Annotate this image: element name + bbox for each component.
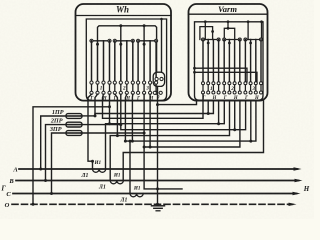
svg-text:Л1: Л1 xyxy=(120,197,128,203)
wire Wh inner frame tap to zero link xyxy=(161,19,163,72)
wire rung phase A voltage to Varm xyxy=(95,100,213,116)
svg-text:А: А xyxy=(12,167,18,174)
junction neutral link at Wh zero wire xyxy=(156,103,159,106)
junction fuse1 input on bus А xyxy=(39,168,42,171)
svg-text:Wh: Wh xyxy=(116,5,129,15)
arrow bus А xyxy=(294,167,302,170)
wire neutral link Wh to Varm xyxy=(158,100,197,104)
Varm element 3 coil group xyxy=(244,38,263,82)
wire rung CT3 И1 to Varm element3 xyxy=(125,100,256,141)
svg-text:Л1: Л1 xyxy=(98,184,106,190)
svg-text:И1: И1 xyxy=(113,172,121,178)
wattmeter Wh outer case xyxy=(76,4,172,101)
svg-text:В: В xyxy=(8,178,14,185)
svg-text:1ПР: 1ПР xyxy=(52,109,64,116)
junction Wh element2 col4 on rung xyxy=(131,140,134,143)
svg-text:2: 2 xyxy=(122,85,126,91)
svg-text:Г: Г xyxy=(0,185,6,193)
wire CT1 И2 to Varm xyxy=(106,100,225,168)
Wh zero link box xyxy=(153,72,164,86)
junction fuse3 output node xyxy=(143,132,146,135)
junction CT1 И1 xyxy=(91,160,94,163)
svg-text:Г: Г xyxy=(136,97,140,102)
wire rung CT2 И2 to Varm right xyxy=(123,100,263,180)
current transformer CT3 secondary winding xyxy=(130,194,143,197)
svg-text:Varm: Varm xyxy=(218,4,237,14)
svg-text:3: 3 xyxy=(251,86,255,92)
junction Varm cross 1 on bar xyxy=(211,30,214,33)
wire fuse1 output xyxy=(81,115,95,117)
svg-text:Н: Н xyxy=(303,185,310,193)
junction Varm drop on rung B xyxy=(207,112,210,115)
svg-text:2ПР: 2ПР xyxy=(50,118,63,125)
Varm element 1 terminals Г Н 1 xyxy=(202,82,221,101)
fuse 1ПР xyxy=(66,114,82,119)
Varm element 2 terminals Г Н 2 xyxy=(223,82,242,101)
wire fuse3 output xyxy=(81,132,144,134)
junction CT2 И1 node xyxy=(116,134,119,137)
wire Varm drop to rung B xyxy=(207,100,209,113)
wire fuse 3ПР input from bus С xyxy=(52,133,67,194)
current transformer CT1 secondary winding xyxy=(93,169,106,172)
wire CT2 И1 to rung xyxy=(110,100,229,180)
wire Varm lower cross connection 1 xyxy=(195,68,248,82)
junction on Wh voltage bus at element 2 xyxy=(119,24,122,27)
svg-text:Л1: Л1 xyxy=(81,173,89,179)
junction Varm drop on rung D xyxy=(217,122,220,125)
fuse 3ПР xyxy=(66,131,82,136)
wire Varm right loop xyxy=(247,22,249,40)
svg-text:1: 1 xyxy=(210,86,213,92)
junction fuse1 output node xyxy=(94,114,97,117)
wire Wh zero link to ground and bus О xyxy=(157,86,159,204)
junction Varm lower cross 2 xyxy=(193,71,196,74)
wire rung Wh element2 to Varm element2 xyxy=(115,94,118,135)
wire rung CT1 И2 return xyxy=(109,94,111,124)
wire Varm drop to rung E xyxy=(234,100,236,130)
Wh zero link terminals xyxy=(155,77,158,80)
svg-text:С: С xyxy=(6,191,11,198)
wire Varm lower cross connection 2 xyxy=(195,72,258,82)
wire Wh voltage bus xyxy=(98,26,157,72)
Wh terminal 0 circles xyxy=(153,91,156,94)
junction Varm top frame taps xyxy=(247,20,250,23)
Varm element 2 coil group xyxy=(223,38,242,82)
junction fuse2 input on bus В xyxy=(44,179,47,182)
svg-text:Н: Н xyxy=(149,97,154,102)
current transformer CT2 secondary winding xyxy=(110,181,123,184)
bus С xyxy=(13,193,297,195)
wire rung phase B voltage to Varm xyxy=(121,94,246,130)
svg-text:И1: И1 xyxy=(93,160,101,166)
Varm element 3 terminals Г Н 3 xyxy=(244,82,263,101)
junction neutral branch at Wh wire xyxy=(108,105,111,108)
Wh element 2 terminals Г Н 2 xyxy=(113,81,135,102)
junction Varm drop on rung G xyxy=(249,140,252,143)
svg-text:3: 3 xyxy=(145,85,149,91)
Wh element 1 terminals Г Н 1 xyxy=(89,81,111,102)
wire Wh element3 col3 drop xyxy=(149,94,151,147)
svg-text:2: 2 xyxy=(230,86,234,92)
Varm inner frame xyxy=(195,22,264,100)
wire Wh bus to element 2 coil xyxy=(120,26,122,41)
varmeter Varm outer case xyxy=(189,4,268,101)
svg-text:Г: Г xyxy=(89,97,93,102)
wire fuse 1ПР input from bus А xyxy=(41,116,66,169)
arrow bus С xyxy=(293,192,301,195)
Wh element 3 coil group xyxy=(137,39,158,81)
junction rung G left xyxy=(124,140,127,143)
junction Varm frame tap 1 xyxy=(204,20,207,23)
wire neutral branch to bus О xyxy=(33,107,110,205)
wire Varm cross connection 2 xyxy=(224,28,234,39)
junction zero wire on CT3 return xyxy=(156,187,159,190)
svg-text:Н: Н xyxy=(212,96,217,101)
junction Wh frame tap xyxy=(160,18,163,21)
junction CT3 return at rung xyxy=(143,146,146,149)
junction zero wire on bus О xyxy=(156,203,159,206)
bus О dashed xyxy=(12,203,293,205)
wire Varm frame tap element 1 xyxy=(204,22,206,40)
wire Wh element1 Г to CT1 И1 xyxy=(88,94,93,161)
Wh case separator line xyxy=(76,15,172,17)
junction fuse3 input on bus С xyxy=(50,192,53,195)
junction CT3 И1 node xyxy=(129,140,132,143)
Wh element 1 coil group xyxy=(90,39,111,81)
wire CT1 И1 lead xyxy=(92,161,94,168)
wire Varm frame tap element 2 xyxy=(227,22,229,29)
svg-text:О: О xyxy=(5,202,10,209)
svg-text:Г: Г xyxy=(113,97,117,102)
junction on Wh voltage bus at element 3 xyxy=(143,24,146,27)
wire Varm drop to rung D xyxy=(218,100,220,124)
wire Varm drop to rung G xyxy=(250,100,252,141)
Varm element 1 coil group xyxy=(202,38,221,82)
Wh element 2 coil group xyxy=(113,39,134,81)
wire rung Wh element1 to Varm element1 xyxy=(103,94,204,118)
arrow bus В xyxy=(295,179,303,182)
svg-text:1: 1 xyxy=(100,85,103,91)
wire Wh bus to element 3 coil xyxy=(143,26,145,41)
wire fuse 2ПР input from bus В xyxy=(46,125,67,181)
junction Varm frame tap 2 xyxy=(227,20,230,23)
junction neutral branch on bus О xyxy=(32,203,35,206)
Wh element 3 terminals Г Н 3 xyxy=(136,81,158,102)
fuse 2ПР xyxy=(66,122,82,127)
wire Wh element2 col4 drop xyxy=(131,94,133,141)
wire rung phase C voltage xyxy=(144,94,240,147)
junction Varm lower cross 1 xyxy=(193,67,196,70)
bus В xyxy=(16,180,299,182)
junction Wh element3 col3 on rung xyxy=(149,146,152,149)
junction Varm drop on rung E xyxy=(233,128,236,131)
wire fuse2 output xyxy=(81,124,121,126)
Varm case separator line xyxy=(189,13,268,15)
arrow bus О xyxy=(289,203,297,206)
wire CT3 И1 lead xyxy=(129,141,131,192)
wire Wh element1 voltage drop xyxy=(95,94,98,116)
Wh inner frame xyxy=(86,19,166,101)
junction fuse2 output node xyxy=(119,123,122,126)
bus А xyxy=(19,168,298,170)
wire Varm cross connection 1 xyxy=(200,27,213,40)
svg-text:И1: И1 xyxy=(133,185,141,191)
wire rung Wh element2 Н return xyxy=(125,94,126,141)
svg-text:3ПР: 3ПР xyxy=(49,126,62,133)
ground symbol xyxy=(152,205,165,207)
wire CT3 И2 return xyxy=(144,147,182,189)
junction CT1 И2 node xyxy=(108,122,111,125)
